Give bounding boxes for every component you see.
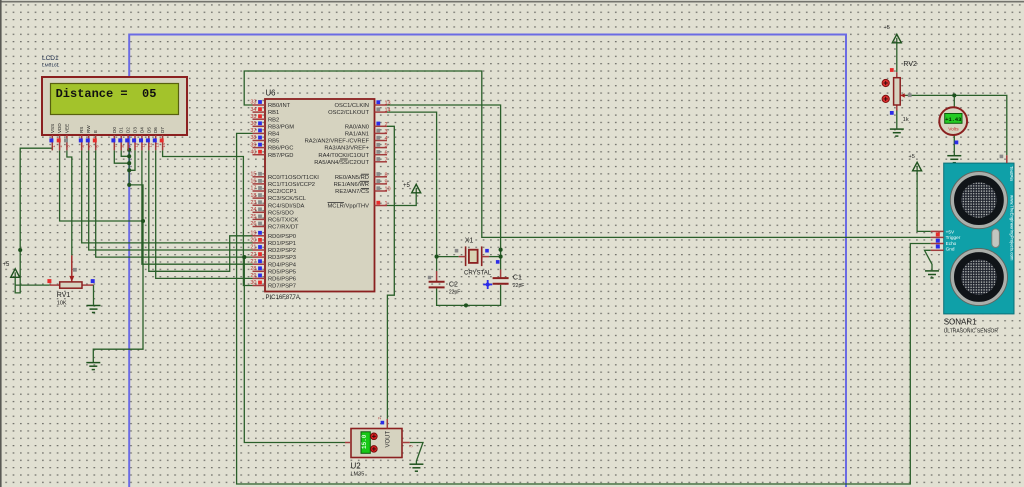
- svg-text:RC5/SDO: RC5/SDO: [268, 210, 294, 216]
- svg-text:9: 9: [385, 180, 388, 186]
- svg-text:SONAR1: SONAR1: [944, 318, 977, 327]
- svg-text:36: 36: [250, 121, 256, 127]
- svg-text:RV2: RV2: [903, 61, 917, 68]
- svg-text:RD2/PSP2: RD2/PSP2: [268, 248, 296, 254]
- svg-text:10K: 10K: [57, 301, 67, 307]
- svg-text:RB2: RB2: [268, 117, 279, 123]
- svg-text:RS: RS: [79, 127, 84, 133]
- svg-text:Trigger: Trigger: [946, 235, 961, 240]
- svg-text:21: 21: [250, 245, 256, 251]
- svg-text:Gnd: Gnd: [946, 247, 955, 252]
- svg-text:LM35: LM35: [351, 472, 365, 478]
- svg-text:40: 40: [250, 149, 256, 155]
- svg-text:23: 23: [250, 200, 256, 206]
- svg-text:24: 24: [250, 207, 256, 213]
- svg-text:+5: +5: [884, 25, 890, 31]
- svg-text:26: 26: [250, 221, 256, 227]
- svg-text:RW: RW: [86, 125, 91, 133]
- svg-text:RC4/SDI/SDA: RC4/SDI/SDA: [268, 203, 305, 209]
- svg-text:6: 6: [385, 150, 388, 156]
- svg-text:2: 2: [58, 145, 63, 148]
- svg-text:OSC1/CLKIN: OSC1/CLKIN: [335, 103, 369, 109]
- svg-text:10: 10: [385, 187, 391, 193]
- svg-text:RC1/T1OSI/CCP2: RC1/T1OSI/CCP2: [268, 182, 315, 188]
- svg-text:RB7/PGD: RB7/PGD: [268, 153, 293, 159]
- svg-text:13: 13: [385, 101, 391, 107]
- svg-text:29: 29: [250, 273, 256, 279]
- svg-text:RA5/AN4/SS/C2OUT: RA5/AN4/SS/C2OUT: [314, 160, 369, 166]
- svg-text:+5: +5: [909, 154, 915, 160]
- svg-text:3: 3: [385, 129, 388, 135]
- svg-text:RD3/PSP3: RD3/PSP3: [268, 255, 296, 261]
- svg-text:D2: D2: [126, 127, 131, 133]
- svg-text:X1: X1: [465, 238, 474, 245]
- svg-text:16: 16: [250, 179, 256, 185]
- svg-text:TestPin: TestPin: [1009, 166, 1014, 182]
- svg-text:RA2/AN2/VREF-/CVREF: RA2/AN2/VREF-/CVREF: [305, 139, 370, 145]
- svg-text:22pF: 22pF: [449, 290, 460, 296]
- svg-text:ULTRASONIC SENSOR: ULTRASONIC SENSOR: [944, 329, 999, 335]
- svg-text:+5: +5: [403, 183, 411, 189]
- svg-text:RB4: RB4: [268, 132, 280, 138]
- svg-text:VDD: VDD: [57, 123, 62, 133]
- svg-text:17: 17: [250, 186, 256, 192]
- svg-text:33: 33: [250, 100, 256, 106]
- svg-text:13: 13: [154, 142, 159, 147]
- svg-text:D1: D1: [119, 127, 124, 133]
- svg-text:25: 25: [250, 214, 256, 220]
- svg-text:D4: D4: [139, 127, 144, 133]
- svg-text:11: 11: [141, 142, 146, 147]
- svg-text:15: 15: [250, 172, 256, 178]
- svg-text:RD7/PSP7: RD7/PSP7: [268, 284, 296, 290]
- svg-text:D0: D0: [112, 127, 117, 133]
- svg-text:RB0/INT: RB0/INT: [268, 103, 291, 109]
- svg-text:35: 35: [250, 114, 256, 120]
- svg-text:12: 12: [147, 142, 152, 147]
- svg-text:2: 2: [385, 122, 388, 128]
- svg-text:D6: D6: [153, 127, 158, 133]
- svg-text:34: 34: [250, 107, 256, 113]
- svg-text:RD4/PSP4: RD4/PSP4: [268, 262, 297, 268]
- svg-text:RC0/T1OSO/T1CKI: RC0/T1OSO/T1CKI: [268, 175, 319, 181]
- svg-text:CRYSTAL: CRYSTAL: [464, 271, 492, 277]
- svg-text:38: 38: [250, 135, 256, 141]
- svg-text:8: 8: [385, 172, 388, 178]
- svg-text:5: 5: [385, 143, 388, 149]
- svg-text:RE1/AN6/WR: RE1/AN6/WR: [334, 182, 369, 188]
- svg-text:+1.43: +1.43: [945, 117, 961, 123]
- svg-text:28: 28: [250, 266, 256, 272]
- svg-text:U6: U6: [266, 89, 276, 98]
- svg-text:7: 7: [385, 157, 388, 163]
- svg-text:4: 4: [385, 136, 388, 142]
- svg-text:RB6/PGC: RB6/PGC: [268, 146, 293, 152]
- svg-text:39: 39: [250, 142, 256, 148]
- svg-text:14: 14: [161, 142, 166, 147]
- svg-text:Volts: Volts: [948, 127, 959, 133]
- svg-text:19: 19: [250, 231, 256, 237]
- svg-text:U2: U2: [351, 462, 362, 471]
- svg-text:Echo: Echo: [946, 241, 957, 246]
- svg-text:RB5: RB5: [268, 139, 279, 145]
- svg-text:LM016L: LM016L: [42, 63, 60, 69]
- svg-text:RB1: RB1: [268, 110, 279, 116]
- svg-text:RA4/T0CKI/C1OUT: RA4/T0CKI/C1OUT: [318, 153, 369, 159]
- svg-text:RC3/SCK/SCL: RC3/SCK/SCL: [268, 196, 307, 202]
- svg-text:RD1/PSP1: RD1/PSP1: [268, 241, 296, 247]
- svg-text:RC2/CCP1: RC2/CCP1: [268, 189, 297, 195]
- svg-text:15.0: 15.0: [361, 434, 368, 449]
- svg-text:RA1/AN1: RA1/AN1: [345, 132, 369, 138]
- svg-text:RE2/AN7/CS: RE2/AN7/CS: [335, 189, 369, 195]
- svg-text:RA0/AN0: RA0/AN0: [345, 124, 369, 130]
- svg-text:RV1: RV1: [57, 292, 71, 299]
- svg-text:RD0/PSP0: RD0/PSP0: [268, 234, 296, 240]
- svg-text:E: E: [93, 130, 98, 133]
- svg-text:MCLR/Vpp/THV: MCLR/Vpp/THV: [327, 204, 369, 210]
- svg-text:VSS: VSS: [50, 124, 55, 133]
- svg-text:PIC16F877A: PIC16F877A: [266, 295, 300, 301]
- svg-text:OSC2/CLKOUT: OSC2/CLKOUT: [328, 110, 369, 116]
- svg-text:C2: C2: [449, 282, 458, 289]
- svg-text:D5: D5: [146, 127, 151, 133]
- svg-text:+5V: +5V: [946, 229, 955, 234]
- svg-text:D3: D3: [133, 127, 138, 133]
- svg-text:1k: 1k: [903, 117, 909, 123]
- svg-text:37: 37: [250, 128, 256, 134]
- svg-text:RD6/PSP6: RD6/PSP6: [268, 277, 296, 283]
- svg-text:14: 14: [385, 108, 391, 114]
- svg-text:Distance = 05: Distance = 05: [56, 87, 157, 101]
- svg-text:VEE: VEE: [64, 124, 69, 133]
- svg-text:RD5/PSP5: RD5/PSP5: [268, 269, 296, 275]
- svg-text:RC7/RX/DT: RC7/RX/DT: [268, 225, 299, 231]
- svg-text:RB3/PGM: RB3/PGM: [268, 124, 294, 130]
- svg-text:10: 10: [134, 142, 139, 147]
- svg-text:C1: C1: [513, 275, 522, 282]
- svg-text:30: 30: [250, 280, 256, 286]
- svg-text:LCD1: LCD1: [42, 55, 59, 62]
- svg-text:18: 18: [250, 193, 256, 199]
- svg-text:22pF: 22pF: [513, 283, 524, 289]
- svg-text:27: 27: [250, 259, 256, 265]
- svg-text:VOUT: VOUT: [385, 430, 391, 447]
- svg-text:RC6/TX/CK: RC6/TX/CK: [268, 218, 298, 224]
- svg-text:www.TheEngineeringProjects.com: www.TheEngineeringProjects.com: [1010, 195, 1015, 261]
- svg-text:+5: +5: [3, 262, 11, 268]
- svg-text:1: 1: [385, 201, 388, 207]
- svg-text:22: 22: [250, 252, 256, 258]
- svg-text:RE0/AN5/RD: RE0/AN5/RD: [335, 175, 369, 181]
- svg-text:RA3/AN3/VREF+: RA3/AN3/VREF+: [324, 146, 369, 152]
- svg-text:D7: D7: [160, 127, 165, 133]
- svg-text:20: 20: [250, 238, 256, 244]
